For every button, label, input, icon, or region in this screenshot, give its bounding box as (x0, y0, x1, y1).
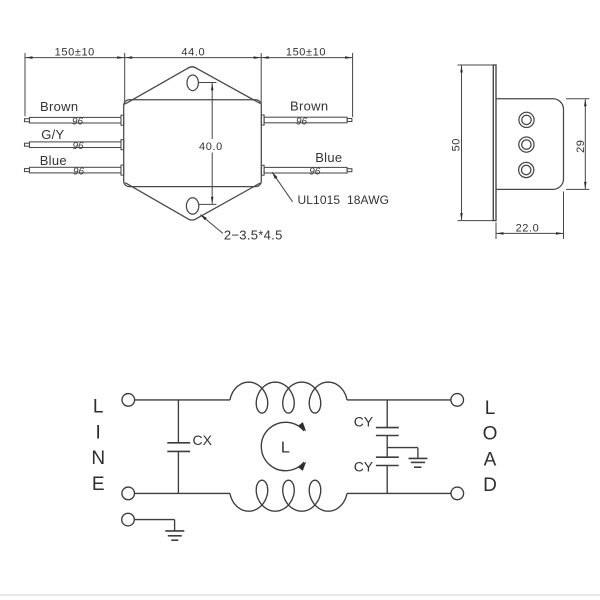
svg-text:Blue: Blue (315, 150, 342, 165)
earth terminal wire (134, 519, 174, 521)
front view: dimension 150±10 (right lead) (261, 47, 352, 117)
wire bottom-right (347, 492, 451, 494)
svg-text:96: 96 (296, 116, 308, 127)
top mounting hole (187, 75, 198, 91)
lead wire left Brown (25, 119, 30, 122)
svg-text:96: 96 (309, 167, 321, 178)
terminal line-bottom (122, 487, 135, 500)
terminal load-bottom (451, 487, 464, 500)
svg-text:D: D (483, 475, 497, 496)
dimension 22.0 (body depth) (496, 192, 564, 240)
svg-text:Blue: Blue (40, 153, 67, 168)
bottom mounting tab (125, 183, 260, 220)
svg-text:29: 29 (575, 139, 587, 152)
svg-text:22.0: 22.0 (516, 222, 540, 234)
LINE label (91, 397, 105, 495)
svg-text:CX: CX (193, 432, 213, 448)
capacitor CX (177, 400, 179, 442)
svg-text:44.0: 44.0 (181, 46, 205, 58)
wire bottom-left (135, 492, 231, 494)
svg-text:G/Y: G/Y (41, 127, 64, 142)
lead wire left Blue (25, 169, 30, 172)
ground (CY junction) (409, 457, 428, 459)
ground (earth terminal) (165, 530, 184, 532)
side view: filter body (496, 99, 564, 190)
svg-text:150±10: 150±10 (286, 47, 326, 59)
bottom mounting hole (186, 198, 198, 214)
wire top-left (135, 399, 230, 401)
capacitor CY bottom (376, 456, 399, 458)
svg-text:L: L (485, 398, 496, 419)
leader note 2-3.5*4.5 (mounting holes) (200, 214, 223, 233)
lead wire left G/Y (25, 143, 30, 146)
terminal line-top (122, 394, 135, 407)
dimension 29 (body height) (566, 99, 589, 190)
LOAD label (483, 398, 498, 496)
svg-text:L: L (281, 439, 290, 456)
dimension 50 (flange height) (451, 65, 494, 221)
svg-text:L: L (93, 397, 104, 418)
svg-text:CY: CY (354, 414, 374, 430)
common-mode choke bottom winding (230, 480, 347, 511)
filter body outline (rounded rectangle) (124, 100, 262, 187)
svg-text:N: N (91, 448, 105, 469)
svg-text:40.0: 40.0 (199, 141, 223, 153)
svg-text:Brown: Brown (290, 99, 328, 114)
svg-text:150±10: 150±10 (55, 47, 95, 59)
svg-text:A: A (484, 449, 497, 470)
common-mode choke top winding (230, 382, 347, 413)
front view: dimension 44.0 (body width) (125, 46, 262, 104)
faint page rule at bottom (0, 594, 600, 596)
svg-text:UL1015 18AWG: UL1015 18AWG (298, 193, 390, 207)
capacitor CY top (386, 400, 388, 427)
terminal eyelet 2 (519, 137, 534, 152)
svg-text:Brown: Brown (40, 99, 78, 114)
svg-text:O: O (483, 424, 498, 445)
svg-text:96: 96 (72, 141, 84, 152)
wire top-right (347, 399, 451, 401)
svg-text:I: I (96, 422, 101, 443)
svg-text:E: E (92, 474, 105, 495)
svg-text:2−3.5*4.5: 2−3.5*4.5 (224, 228, 283, 243)
terminal eyelet 1 (519, 112, 534, 127)
top mounting tab (125, 67, 260, 104)
svg-text:96: 96 (73, 166, 85, 177)
lead wire right Blue (261, 165, 264, 175)
leader note UL1015 18AWG (wire spec) (272, 172, 293, 202)
svg-text:CY: CY (354, 459, 374, 475)
terminal load-top (451, 394, 464, 407)
mid junction to earth (386, 436, 388, 457)
coupling arrow circle (261, 422, 304, 470)
dimension 40.0 (hole spacing) (199, 83, 223, 205)
front view: dimension 150±10 (left lead) (25, 47, 125, 117)
terminal eyelet 3 (519, 162, 534, 177)
terminal earth (122, 513, 135, 526)
svg-text:50: 50 (451, 138, 463, 151)
svg-text:96: 96 (72, 117, 84, 128)
lead wire right Brown (261, 115, 264, 125)
side view: mounting flange (edge-on plate) (493, 65, 496, 221)
